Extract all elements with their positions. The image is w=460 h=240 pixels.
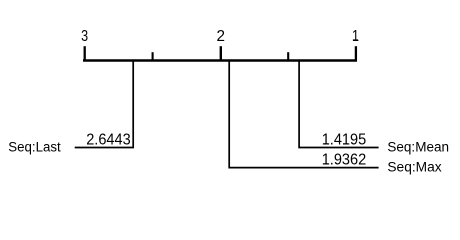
major tick 1: [355, 46, 357, 60]
axis line: [83, 59, 357, 62]
svg-text:Seq:Last: Seq:Last: [8, 139, 60, 155]
minor tick 1.5: [287, 52, 289, 60]
drop line Seq:Mean: [299, 61, 379, 148]
minor tick 2.5: [152, 52, 154, 60]
serif feet of digit 1s in 1.4195: [323, 143, 328, 144]
serif foot of tick label 1: [353, 39, 358, 40]
svg-text:1.9362: 1.9362: [322, 152, 367, 169]
svg-text:3: 3: [81, 28, 88, 45]
major tick 3: [84, 46, 86, 60]
svg-text:Seq:Mean: Seq:Mean: [387, 139, 449, 155]
svg-text:2.6443: 2.6443: [86, 132, 131, 149]
drop line Seq:Max: [229, 61, 378, 168]
svg-text:Seq:Max: Seq:Max: [387, 159, 441, 175]
drop line Seq:Last: [75, 61, 134, 148]
serif foot of digit 1 in 1.9362: [323, 163, 328, 164]
major tick 2: [220, 46, 222, 60]
svg-text:1: 1: [352, 28, 359, 45]
svg-text:1.4195: 1.4195: [322, 132, 367, 149]
svg-text:2: 2: [216, 28, 225, 45]
